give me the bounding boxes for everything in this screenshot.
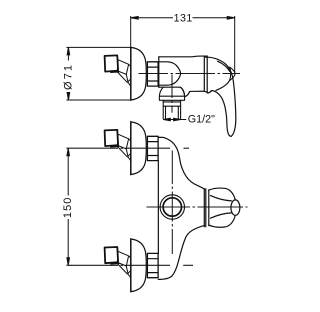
svg-text:150: 150 — [62, 196, 74, 218]
body left edge — [158, 57, 160, 87]
thread inner lines — [166, 106, 179, 119]
extension line right of 131 — [234, 16, 236, 73]
cap dome arc upper — [218, 61, 230, 71]
body bottom edge — [159, 87, 185, 96]
bell waist curves — [211, 196, 232, 219]
centerline middle horizontal — [147, 206, 248, 208]
body bowl under cap — [185, 91, 212, 97]
G1/2 leader with arrows — [163, 118, 186, 121]
cartridge dome D — [159, 62, 181, 85]
outlet axis centerline — [171, 75, 173, 113]
threaded pipe — [163, 100, 180, 119]
extension line left of 131 — [130, 16, 132, 48]
svg-text:131: 131 — [174, 12, 193, 24]
centerline vertical axis — [171, 151, 173, 255]
body left edge — [157, 161, 159, 254]
handle hub and outer edge — [206, 57, 236, 136]
cap dome arc lower cheek — [216, 80, 230, 90]
dimension 131 line — [131, 17, 235, 20]
outlet boss — [159, 87, 184, 96]
lever handle (side view) — [206, 57, 236, 136]
body outline top — [159, 55, 207, 58]
body right sweep lower — [158, 225, 204, 279]
escutcheon assembly top view — [105, 47, 159, 100]
escutcheon assembly lower — [105, 239, 159, 292]
cap ring verticals — [204, 56, 207, 93]
centerline upper inlet — [66, 147, 189, 149]
flange verticals — [204, 189, 209, 227]
end ellipse — [231, 200, 240, 215]
svg-text:G1/2": G1/2" — [188, 114, 215, 126]
svg-text:Ø71: Ø71 — [63, 63, 75, 90]
outlet circle inner — [163, 198, 181, 216]
outlet flange — [159, 96, 184, 100]
centerline lower inlet — [66, 264, 193, 266]
cap tip crescent — [230, 67, 235, 80]
escutcheon assembly upper — [105, 122, 159, 175]
body top and right edge upper — [158, 137, 204, 189]
shower outlet with thread — [159, 87, 184, 119]
dimension 150 — [67, 148, 70, 265]
centerline of top view — [139, 73, 241, 75]
bell outline — [209, 188, 236, 200]
dimension O71 — [66, 47, 130, 100]
outlet circle outer — [160, 195, 184, 219]
mixer body (side view) — [159, 56, 235, 96]
mixer body (plan view) — [158, 137, 204, 279]
handle knob (plan view) — [204, 188, 240, 227]
